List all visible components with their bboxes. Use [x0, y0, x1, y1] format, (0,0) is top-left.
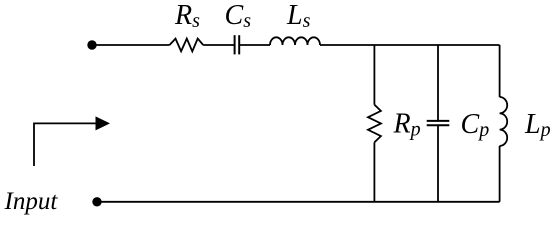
wire	[373, 45, 375, 105]
wire	[437, 125, 439, 202]
inductor Lp	[500, 97, 508, 146]
svg-text:Ls: Ls	[286, 0, 311, 32]
wire	[437, 45, 439, 121]
svg-text:Lp: Lp	[524, 109, 550, 141]
input arrow	[34, 123, 96, 166]
svg-text:Cs: Cs	[225, 0, 252, 32]
capacitor Cs	[235, 35, 240, 54]
wire	[239, 44, 270, 46]
wire	[373, 142, 375, 202]
wire	[203, 44, 234, 46]
wire	[320, 44, 500, 46]
svg-text:Rp: Rp	[393, 108, 421, 140]
input terminal dot (bottom)	[92, 197, 101, 206]
svg-text:Cp: Cp	[461, 109, 490, 141]
svg-text:Rs: Rs	[174, 0, 200, 32]
capacitor Cp	[427, 121, 450, 125]
wire	[499, 45, 501, 97]
resistor Rp	[368, 105, 381, 143]
wire	[97, 201, 500, 203]
wire	[92, 44, 170, 46]
resistor Rs	[170, 39, 204, 52]
svg-text:Input: Input	[4, 188, 59, 215]
inductor Ls	[270, 37, 320, 45]
input terminal dot (top)	[87, 40, 96, 49]
wire	[499, 146, 501, 202]
